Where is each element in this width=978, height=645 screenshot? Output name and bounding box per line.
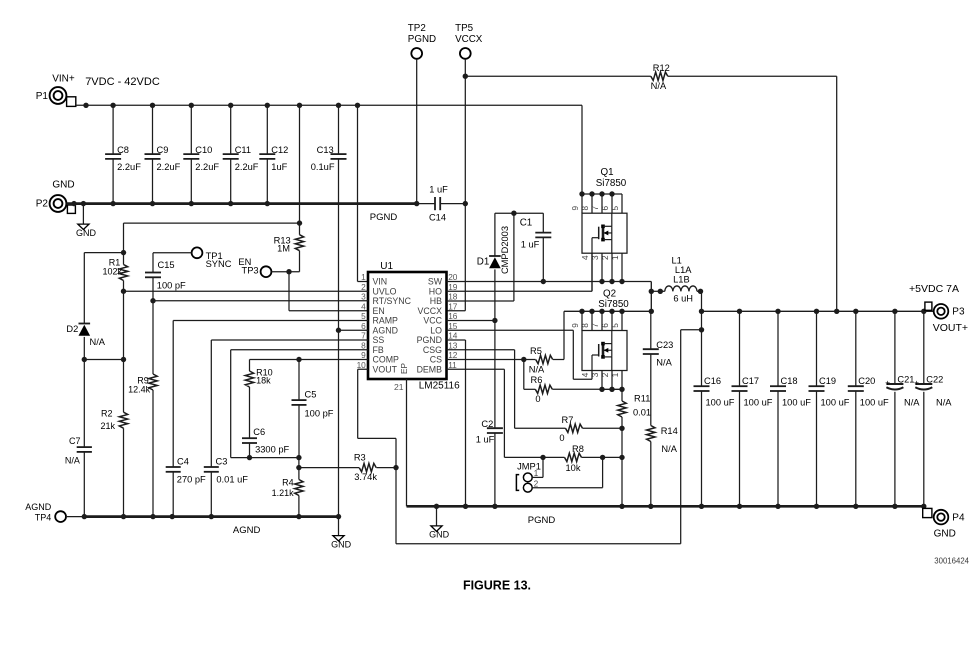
capacitor C19 100uF (809, 311, 850, 506)
svg-text:CS: CS (430, 355, 442, 365)
svg-text:N/A: N/A (936, 398, 952, 408)
svg-text:100 pF: 100 pF (305, 408, 334, 418)
svg-text:N/A: N/A (661, 444, 677, 454)
svg-text:8: 8 (581, 205, 590, 210)
wire SS pin7 (211, 340, 368, 467)
svg-text:VOUT+: VOUT+ (933, 322, 968, 334)
capacitor C13 (311, 105, 347, 172)
svg-text:D1: D1 (477, 257, 490, 268)
svg-text:C3: C3 (216, 456, 228, 466)
svg-text:P4: P4 (952, 512, 965, 523)
svg-text:R6: R6 (531, 375, 543, 385)
wire VCC pin16 (447, 318, 498, 323)
svg-text:18: 18 (448, 292, 458, 302)
resistor R3 3.74k (299, 453, 399, 482)
wire VOUT pin10 sense (358, 369, 396, 467)
svg-text:18k: 18k (256, 375, 271, 385)
svg-text:30016424: 30016424 (934, 557, 969, 566)
svg-text:C4: C4 (177, 456, 189, 466)
svg-text:21k: 21k (100, 421, 115, 431)
wire L1 to output rail (699, 291, 704, 386)
wire CS pin12 (447, 357, 527, 362)
svg-text:VIN: VIN (373, 277, 388, 287)
svg-text:R2: R2 (101, 409, 113, 419)
resistor R8 10k (504, 444, 624, 473)
test point TP4 AGND (25, 502, 84, 522)
svg-text:1M: 1M (277, 244, 290, 254)
capacitor C2 1uF (476, 321, 503, 507)
svg-text:6: 6 (601, 205, 610, 210)
capacitor C4 270pF (166, 456, 206, 516)
capacitor C18 100uF (770, 311, 811, 506)
svg-text:N/A: N/A (90, 337, 106, 347)
svg-text:Q1: Q1 (600, 167, 613, 178)
capacitor C20 100uF (848, 311, 889, 506)
wire VIN to Q1 drain (581, 105, 583, 194)
resistor R14 N/A (647, 426, 678, 507)
svg-text:N/A: N/A (904, 398, 920, 408)
svg-text:R12: R12 (653, 63, 670, 73)
svg-text:13: 13 (448, 340, 458, 350)
resistor R6 0 (524, 360, 602, 404)
svg-text:C23: C23 (656, 340, 673, 350)
svg-text:Si7850: Si7850 (596, 178, 627, 189)
svg-text:2: 2 (534, 480, 539, 489)
svg-text:100 pF: 100 pF (157, 280, 186, 290)
svg-text:C13: C13 (317, 145, 334, 155)
svg-text:1.21k: 1.21k (272, 488, 295, 498)
svg-text:1: 1 (361, 272, 366, 282)
svg-text:+5VDC 7A: +5VDC 7A (909, 283, 959, 295)
svg-text:6: 6 (361, 321, 366, 331)
wire RAMP pin5 (173, 321, 368, 468)
svg-text:D2: D2 (66, 324, 78, 334)
wire SW node pin20 (447, 279, 655, 312)
resistor R5 N/A (524, 346, 564, 375)
svg-text:C11: C11 (235, 145, 251, 155)
svg-text:PGND: PGND (417, 335, 442, 345)
svg-text:3300 pF: 3300 pF (255, 445, 289, 455)
svg-text:270 pF: 270 pF (177, 475, 206, 485)
capacitor C21 N/A polarized (885, 311, 920, 506)
svg-text:16: 16 (448, 311, 458, 321)
jumper JMP1 (516, 457, 602, 492)
svg-text:C8: C8 (117, 145, 129, 155)
svg-text:VIN+: VIN+ (52, 74, 75, 85)
resistor R4 1.21k (272, 468, 303, 517)
diode D2 N/A (66, 253, 123, 360)
svg-text:1 uF: 1 uF (429, 185, 448, 195)
resistor R13 1M (274, 105, 304, 271)
svg-text:8: 8 (581, 323, 590, 328)
wire C13 to AGND net (vertical) (336, 159, 341, 519)
svg-text:100 uF: 100 uF (821, 398, 850, 408)
capacitor C5 100pF (292, 360, 334, 458)
svg-text:GND: GND (52, 180, 74, 191)
connector P1 VIN+ (36, 74, 76, 107)
svg-text:4: 4 (361, 301, 366, 311)
svg-text:C5: C5 (305, 389, 317, 399)
svg-text:PGND: PGND (370, 212, 398, 223)
svg-text:C12: C12 (271, 145, 288, 155)
svg-text:AGND: AGND (373, 325, 398, 335)
svg-text:7: 7 (361, 331, 366, 341)
svg-text:L1A: L1A (675, 265, 692, 275)
svg-text:C7: C7 (69, 436, 81, 446)
connector P4 GND (923, 508, 965, 539)
svg-text:SS: SS (373, 335, 385, 345)
svg-text:TP2: TP2 (408, 23, 426, 34)
svg-text:2: 2 (361, 282, 366, 292)
svg-text:GND: GND (76, 228, 97, 238)
svg-text:100 uF: 100 uF (744, 398, 773, 408)
svg-text:12: 12 (448, 350, 458, 360)
svg-text:3: 3 (361, 292, 366, 302)
svg-text:1uF: 1uF (271, 162, 287, 172)
svg-text:C6: C6 (253, 427, 265, 437)
svg-text:3.74k: 3.74k (354, 472, 377, 482)
svg-text:GND: GND (429, 530, 450, 540)
svg-text:9: 9 (571, 323, 580, 328)
svg-text:GND: GND (934, 528, 956, 539)
svg-text:0.1uF: 0.1uF (311, 162, 335, 172)
wire D2 anode to R2 node (82, 357, 127, 362)
wire CSG pin13 (447, 350, 515, 429)
svg-text:1 uF: 1 uF (476, 435, 495, 445)
svg-text:C19: C19 (819, 376, 836, 386)
svg-text:C1: C1 (520, 217, 533, 228)
test point TP1 SYNC (192, 247, 232, 268)
svg-text:AGND: AGND (233, 525, 261, 536)
svg-text:0: 0 (559, 433, 564, 443)
capacitor C11 (223, 105, 259, 203)
svg-text:PGND: PGND (408, 34, 436, 45)
capacitor C17 100uF (732, 311, 773, 506)
resistor R10 18k (245, 360, 272, 439)
wire DEMB pin11 (447, 369, 505, 457)
svg-text:12.4k: 12.4k (128, 384, 151, 394)
svg-text:C18: C18 (781, 376, 798, 386)
capacitor C16 100uF (694, 376, 735, 506)
svg-text:10k: 10k (566, 463, 581, 473)
svg-text:4: 4 (581, 372, 590, 377)
svg-text:DEMB: DEMB (417, 364, 443, 374)
capacitor C10 (183, 105, 219, 203)
svg-text:Si7850: Si7850 (598, 299, 629, 310)
svg-text:5: 5 (611, 323, 620, 328)
svg-text:2.2uF: 2.2uF (195, 162, 219, 172)
svg-text:C17: C17 (742, 376, 759, 386)
svg-text:C22: C22 (926, 375, 943, 385)
capacitor C22 N/A polarized (914, 311, 952, 506)
resistor R7 0 (515, 415, 625, 443)
svg-text:VCCX: VCCX (455, 34, 483, 45)
svg-text:LO: LO (430, 325, 442, 335)
svg-text:R3: R3 (354, 453, 366, 463)
svg-text:COMP: COMP (373, 355, 400, 365)
capacitor C6 3300pF (242, 427, 290, 458)
svg-text:9: 9 (571, 205, 580, 210)
pin 21 pad wire to PGND (394, 379, 407, 506)
wire R11 bottom to PGND (621, 428, 623, 506)
wire HB node (495, 212, 543, 214)
svg-text:0.01 uF: 0.01 uF (216, 475, 248, 485)
test point TP2 PGND (408, 23, 436, 206)
wire R1 to R2 segment (123, 291, 125, 412)
wire HB pin18 (447, 211, 517, 302)
wire PGND pin14 (447, 340, 466, 506)
diode D1 CMPD2003 (477, 213, 510, 320)
svg-text:N/A: N/A (65, 456, 80, 466)
svg-text:6 uH: 6 uH (673, 294, 693, 304)
wire VIN rail (76, 103, 582, 108)
ground symbol near P2 (76, 204, 97, 238)
test point TP3 EN (238, 257, 271, 277)
svg-text:7: 7 (591, 323, 600, 328)
svg-text:HB: HB (430, 296, 442, 306)
wire HO pin19 to Q1 gate (447, 253, 593, 291)
svg-text:CSG: CSG (423, 345, 442, 355)
resistor R9 12.4k (128, 301, 157, 517)
svg-text:0.01: 0.01 (633, 407, 651, 417)
svg-text:TP4: TP4 (35, 512, 52, 522)
transistor Q2 Si7850 (571, 288, 629, 389)
capacitor C12 (259, 105, 288, 203)
svg-text:5: 5 (361, 311, 366, 321)
capacitor C7 N/A (65, 360, 92, 517)
svg-text:C16: C16 (704, 376, 721, 386)
svg-text:VOUT: VOUT (373, 364, 398, 374)
svg-text:GND: GND (331, 539, 352, 549)
inductor L1 6uH (651, 256, 703, 304)
svg-text:HO: HO (429, 286, 442, 296)
wire VOUT rail (702, 309, 934, 314)
svg-text:100 uF: 100 uF (706, 398, 735, 408)
svg-text:C10: C10 (195, 145, 212, 155)
svg-text:11: 11 (448, 360, 457, 370)
svg-text:R7: R7 (562, 415, 574, 425)
svg-text:C21: C21 (897, 375, 914, 385)
svg-text:TP3: TP3 (242, 265, 259, 275)
svg-text:VCCX: VCCX (418, 306, 443, 316)
capacitor C15 100pF (145, 253, 192, 301)
svg-text:17: 17 (448, 301, 458, 311)
capacitor C23 N/A (643, 311, 674, 425)
svg-text:VCC: VCC (423, 316, 442, 326)
svg-text:EP: EP (400, 363, 409, 374)
wire COMP pin9 (250, 357, 369, 362)
wire AGND pin6 (339, 329, 369, 331)
wire VOUT sense to output (396, 327, 704, 544)
svg-text:RT/SYNC: RT/SYNC (373, 296, 412, 306)
svg-text:N/A: N/A (656, 357, 672, 367)
svg-text:100 uF: 100 uF (782, 398, 811, 408)
svg-text:RAMP: RAMP (373, 316, 399, 326)
svg-text:TP5: TP5 (455, 23, 474, 34)
resistor R11 0.01 (618, 389, 651, 428)
transistor Q1 Si7850 (571, 167, 627, 291)
wire PGND output rail (407, 504, 927, 509)
resistor R12 N/A (465, 63, 836, 91)
svg-text:FB: FB (373, 345, 384, 355)
wire UVLO pin2 (121, 289, 368, 294)
svg-text:9: 9 (361, 350, 366, 360)
svg-text:P2: P2 (36, 199, 49, 210)
wire U1 VIN pin1 (358, 105, 369, 281)
wire Q2 drain bus extension (564, 309, 654, 360)
svg-text:8: 8 (361, 340, 366, 350)
svg-text:SYNC: SYNC (206, 259, 232, 269)
svg-text:15: 15 (448, 321, 458, 331)
svg-text:L1B: L1B (673, 275, 690, 285)
svg-text:PGND: PGND (528, 515, 556, 526)
IC U1 LM25116 (357, 261, 461, 391)
svg-text:21: 21 (394, 382, 404, 392)
svg-text:20: 20 (448, 272, 458, 282)
svg-text:5: 5 (611, 205, 620, 210)
svg-text:2.2uF: 2.2uF (235, 162, 259, 172)
svg-text:1: 1 (534, 469, 539, 478)
svg-text:14: 14 (448, 331, 458, 341)
svg-text:AGND: AGND (25, 502, 52, 512)
svg-text:C15: C15 (158, 260, 175, 270)
svg-text:EN: EN (373, 306, 385, 316)
test point TP5 VCCX (455, 23, 483, 311)
svg-text:+: + (885, 378, 890, 388)
svg-text:P3: P3 (952, 306, 965, 317)
wire EN node (272, 269, 369, 311)
svg-text:+: + (914, 378, 919, 388)
svg-text:2.2uF: 2.2uF (117, 162, 141, 172)
svg-text:7: 7 (591, 205, 600, 210)
svg-text:10: 10 (357, 360, 367, 370)
wire VCCX to U1 pin17 (447, 310, 466, 312)
svg-text:R8: R8 (572, 444, 584, 454)
svg-text:4: 4 (581, 255, 590, 260)
svg-text:2.2uF: 2.2uF (157, 162, 181, 172)
svg-text:C20: C20 (858, 376, 875, 386)
svg-text:6: 6 (601, 323, 610, 328)
svg-text:UVLO: UVLO (373, 286, 397, 296)
svg-text:Q2: Q2 (603, 288, 616, 299)
svg-text:R14: R14 (661, 426, 678, 436)
wire RT/SYNC pin3 (150, 298, 368, 303)
svg-text:N/A: N/A (651, 81, 667, 91)
svg-text:C14: C14 (429, 212, 446, 222)
wire LO pin15 to Q2 gate (447, 330, 593, 379)
connector P3 VOUT+ (925, 302, 968, 334)
wire PGND input rail (67, 201, 417, 206)
svg-text:C9: C9 (157, 145, 169, 155)
connector P2 GND (36, 180, 76, 214)
wire AGND rail (82, 514, 339, 519)
capacitor C9 (145, 105, 181, 203)
svg-text:R4: R4 (282, 477, 294, 487)
svg-text:R5: R5 (530, 346, 542, 356)
capacitor C1 1uF (520, 213, 552, 281)
svg-text:102k: 102k (102, 266, 122, 276)
svg-text:1 uF: 1 uF (521, 239, 540, 249)
svg-text:R11: R11 (634, 393, 650, 403)
capacitor C3 0.01uF (204, 456, 248, 516)
svg-text:CMPD2003: CMPD2003 (500, 226, 510, 274)
wire Q2 source bus (599, 387, 624, 392)
wire FB pin8 (231, 350, 368, 471)
wire R12 to VOUT rail (836, 76, 838, 311)
ground symbol at AGND rail end (331, 517, 352, 550)
resistor R1 102k (102, 223, 299, 291)
svg-text:SW: SW (428, 277, 443, 287)
svg-text:U1: U1 (380, 261, 393, 272)
svg-text:7VDC - 42VDC: 7VDC - 42VDC (85, 76, 160, 88)
resistor R2 21k (100, 409, 127, 517)
svg-text:0: 0 (535, 394, 540, 404)
svg-text:19: 19 (448, 282, 458, 292)
svg-text:C2: C2 (481, 419, 493, 429)
ground symbol below U1 (429, 506, 450, 539)
svg-text:FIGURE 13.: FIGURE 13. (463, 579, 531, 593)
capacitor C14 1uF (417, 185, 466, 223)
capacitor C8 (105, 105, 141, 203)
svg-text:100 uF: 100 uF (860, 398, 889, 408)
svg-text:LM25116: LM25116 (419, 380, 460, 391)
svg-text:N/A: N/A (529, 364, 545, 374)
svg-text:P1: P1 (36, 91, 49, 102)
